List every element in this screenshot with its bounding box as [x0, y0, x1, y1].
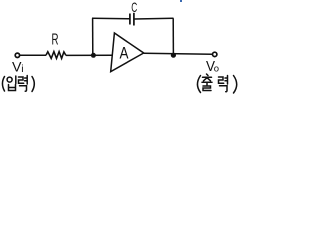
- svg-text:A: A: [120, 44, 130, 63]
- input terminal Vi: [15, 53, 19, 57]
- op-amp U1 triangle: [111, 33, 144, 72]
- node junction at amp output: [171, 53, 176, 58]
- 력 : ㄹ ㅕ / ㄱ: [19, 77, 24, 83]
- resistor R value label: [52, 32, 59, 49]
- capacitor C: [130, 13, 134, 26]
- wire resistor to op-amp input: [66, 54, 113, 56]
- (: [2, 77, 4, 92]
- label Vi: [12, 59, 24, 75]
- 력 : ㄹ ㅕ / ㄱ: [219, 77, 224, 83]
- label (input) Korean 입력: [2, 76, 34, 92]
- label Vo: [206, 59, 219, 75]
- wire feedback top left segment: [92, 17, 130, 20]
- wire input terminal to resistor: [20, 54, 46, 56]
- op-amp gain label A: [120, 44, 130, 63]
- node junction at amp input: [91, 53, 96, 58]
- capacitor C value label: [131, 0, 137, 15]
- svg-text:C: C: [131, 0, 137, 15]
- wire amp output to output terminal: [144, 53, 213, 54]
- label (output) Korean 출력: [197, 74, 236, 93]
- scan speck: [180, 0, 182, 2]
- 입 : ㅇ ㅣ / ㅂ: [7, 77, 12, 82]
- svg-text:R: R: [52, 32, 59, 49]
- wire feedback left vertical: [92, 18, 94, 55]
- ): [32, 77, 34, 92]
- (: [197, 76, 200, 93]
- svg-text:i: i: [21, 63, 23, 75]
- resistor R: [46, 52, 66, 59]
- svg-text:o: o: [214, 63, 219, 74]
- wire feedback right vertical: [172, 18, 174, 55]
- ): [234, 76, 237, 94]
- wire feedback top right segment: [135, 17, 174, 20]
- 출 : ㅊ / ㅜ / ㄹ: [203, 74, 212, 81]
- output terminal Vo: [213, 52, 217, 56]
